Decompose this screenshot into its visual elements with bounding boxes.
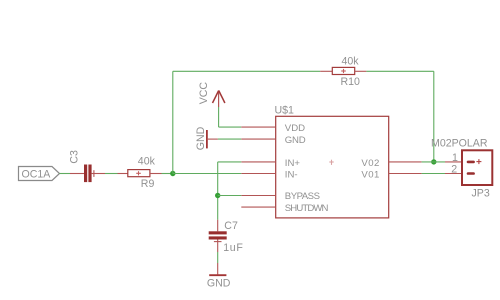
wire node A up to top rail [172,71,174,173]
svg-text:40k: 40k [138,155,156,167]
svg-text:1: 1 [452,152,458,164]
svg-text:1uF: 1uF [223,242,243,254]
wire C7 to ground [217,252,219,263]
R9 left pin lead [118,173,128,175]
wire GND to U1 GND pin [218,138,241,140]
svg-text:IN-: IN- [285,169,298,180]
pin GND [241,135,305,146]
JP3 pin 1 lead [445,152,462,164]
VCC symbol [198,82,225,107]
svg-text:SHUTDWN: SHUTDWN [285,203,329,214]
svg-text:GND: GND [207,278,231,290]
svg-text:OC1A: OC1A [22,169,52,181]
wire node C to BYPASS [218,195,242,197]
wire V02 to node B to JP3 pin 1 [422,161,445,163]
svg-text:VDD: VDD [285,123,305,134]
pin BYPASS [241,191,319,202]
svg-text:U$1: U$1 [275,104,295,116]
svg-text:V01: V01 [361,169,379,180]
pin IN- [241,169,297,180]
svg-text:VCC: VCC [198,82,210,105]
wire R10 to right column [366,70,433,72]
resistor R9 [128,155,156,190]
R10 right pin lead [355,70,367,72]
svg-text:IN+: IN+ [285,158,301,169]
ground symbol (bottom) [207,263,231,290]
wire V01 to JP3 pin 2 [422,173,445,175]
net label OC1A [19,167,60,181]
wire OC1A to C3 [60,173,71,175]
svg-text:R9: R9 [141,178,155,190]
connector JP3 (M02POLAR) [431,138,492,200]
svg-text:BYPASS: BYPASS [285,191,320,202]
svg-text:GND: GND [285,135,306,146]
junction node A [170,171,175,176]
capacitor C7 [209,220,244,254]
svg-text:2: 2 [451,163,457,175]
junction node B [431,159,436,164]
op-amp U1 (amplifier IC U$1) [275,104,389,218]
JP3 pin 2 lead [445,163,462,175]
C3 right pin lead [92,173,105,175]
capacitor C3 [69,150,94,182]
svg-text:JP3: JP3 [472,188,490,200]
pin VDD [241,123,305,134]
wire top rail to R10 [173,70,320,72]
svg-text:C3: C3 [69,150,81,164]
wire IN- from node A [173,173,242,175]
junction node C (bypass) [215,193,220,198]
svg-text:V02: V02 [361,158,379,169]
pin V01 [361,169,421,180]
svg-text:M02POLAR: M02POLAR [431,138,488,150]
pin V02 [361,158,421,169]
resistor R10 [332,56,360,88]
wire right column down to node B [433,71,435,162]
svg-text:R10: R10 [341,76,361,88]
wire VCC to VDD [219,107,242,127]
pin IN+ [241,158,300,169]
svg-text:C7: C7 [224,220,238,232]
svg-text:40k: 40k [342,56,360,68]
C7 top pin lead [217,220,219,232]
ground symbol (left, rotated) [195,126,218,150]
R9 right pin lead [150,173,162,175]
pin SHUTDWN [241,203,328,214]
wire R9 to node A [162,173,173,175]
R10 left pin lead [320,70,332,72]
C3 left pin lead [70,173,84,175]
wire IN+ column [218,162,242,220]
wire C3 to R9 [105,173,118,175]
svg-text:GND: GND [195,126,207,150]
